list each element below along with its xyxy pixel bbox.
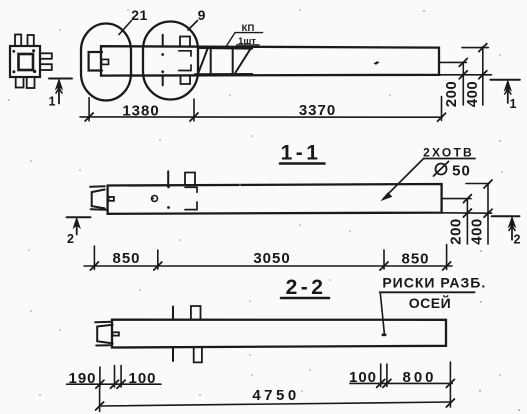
ellipse callout 21 [81, 24, 131, 101]
svg-text:100: 100 [349, 369, 377, 386]
dim text 3370 [299, 102, 336, 119]
dim text 850 left [112, 250, 140, 267]
svg-text:800: 800 [402, 369, 436, 386]
end view outer square [10, 46, 40, 77]
section 1-1 beam body [108, 184, 442, 214]
embed dots [161, 53, 164, 73]
underline 2-2 [281, 297, 329, 300]
svg-text:ОСЕЙ: ОСЕЙ [409, 294, 451, 311]
svg-text:21: 21 [131, 7, 148, 23]
end view bottom stubs [16, 77, 35, 88]
1-1 plate corner upper [185, 187, 197, 192]
svg-text:200: 200 [448, 218, 465, 245]
dim 200 main view [459, 58, 467, 105]
section 2-2 beam body [112, 320, 446, 348]
svg-text:190: 190 [68, 370, 96, 387]
riski underline [380, 291, 475, 293]
1-1 tick above beam [167, 171, 169, 183]
section mark 2 right [492, 216, 520, 240]
2-2 tick below beam [172, 347, 174, 361]
section mark 1 left [49, 79, 72, 104]
1-1 bottom extension right [442, 212, 492, 214]
label section 1-1 [281, 142, 322, 165]
svg-text:1-1: 1-1 [281, 142, 322, 165]
2-2 left tab [113, 332, 119, 335]
embed tick above beam [162, 35, 164, 47]
svg-text:2: 2 [67, 232, 74, 246]
1-1 dim 400 [466, 180, 492, 244]
leader 9 [188, 21, 198, 31]
dim text 190 [68, 370, 96, 387]
beam bottom extension right [439, 74, 492, 76]
1-1 dim ticks [90, 262, 450, 270]
embed top stub [180, 37, 190, 47]
1-1 left tab [109, 197, 114, 201]
svg-text:2: 2 [514, 233, 521, 247]
end view top stubs [15, 35, 34, 47]
extension line mid right [439, 61, 467, 63]
1-1 dots [167, 185, 170, 209]
underline 2xOTV [424, 158, 475, 160]
4750 dim ticks [96, 399, 455, 410]
end view right stubs [40, 53, 52, 70]
1-1 dim line [84, 265, 452, 267]
2-2 small dim ext lines right [381, 362, 451, 407]
label section 2-2 [286, 276, 327, 299]
text osey [409, 294, 451, 311]
riska mark on main beam [374, 61, 380, 65]
svg-text:2-2: 2-2 [286, 276, 327, 299]
label KP [238, 23, 256, 47]
label 21 [131, 7, 148, 23]
1-1 top stub [185, 173, 195, 184]
4750 dim line [100, 388, 451, 412]
label 2 right [514, 233, 521, 247]
leader 21 [119, 21, 132, 35]
embed tick below beam [162, 76, 164, 86]
text 50 [452, 163, 471, 180]
svg-text:9: 9 [198, 7, 206, 23]
underline 1-1 [280, 162, 325, 165]
svg-text:50: 50 [452, 163, 471, 180]
text 2xOTV [423, 146, 474, 160]
svg-text:850: 850 [112, 250, 140, 267]
dim text 100 left [128, 370, 156, 387]
svg-text:200: 200 [443, 81, 460, 108]
2-2 small dim ext lines left [100, 366, 121, 387]
1-1 circle marker [152, 196, 158, 202]
svg-text:400: 400 [469, 218, 486, 245]
dim text 100 right [349, 369, 377, 386]
2-2 left bracket [95, 322, 112, 346]
label 1 right [510, 97, 517, 111]
embed plate corner lower [179, 65, 191, 71]
svg-text:1380: 1380 [122, 103, 159, 120]
2-2 top stub [191, 306, 201, 320]
svg-text:100: 100 [128, 370, 156, 387]
2-2 small dim line right [350, 382, 452, 384]
dim 400 main view [462, 44, 488, 105]
svg-text:1: 1 [510, 97, 517, 111]
2-2 small dim line left [67, 383, 161, 385]
leader 2 holes [382, 159, 424, 201]
main dim ticks [85, 113, 445, 121]
main view dim extension lines [89, 97, 441, 121]
label 1 left [49, 95, 56, 109]
label 2 left [67, 232, 74, 246]
end view inner square [19, 54, 34, 70]
embed plate corner upper [179, 51, 191, 56]
end view corner dots [12, 49, 36, 73]
dim text 3050 [253, 250, 290, 267]
main view dim line [80, 116, 442, 118]
2-2 small dim ticks left [96, 380, 125, 388]
dim text 800 [402, 369, 436, 386]
1-1 mid extension right [442, 198, 471, 200]
1-1 dim extension lines [94, 245, 446, 270]
1-1 dim 200 [463, 195, 471, 244]
KP underlines and leader [226, 33, 263, 48]
svg-text:2ХОТВ: 2ХОТВ [423, 146, 474, 160]
2-2 tick above beam [172, 307, 174, 320]
svg-text:РИСКИ РАЗБ.: РИСКИ РАЗБ. [382, 275, 486, 291]
svg-text:3370: 3370 [299, 102, 336, 119]
2-2 small dim ticks right [377, 379, 455, 387]
main beam body [101, 46, 439, 75]
label 9 [198, 7, 206, 23]
main beam left bracket [89, 52, 102, 71]
dim text 850 right [401, 251, 429, 268]
svg-text:3050: 3050 [253, 250, 290, 267]
2-2 bottom stub [194, 347, 202, 362]
section mark 2 left [67, 217, 91, 234]
dim text 4750 [252, 387, 299, 404]
ellipse callout 9 [143, 22, 198, 100]
svg-text:850: 850 [401, 251, 429, 268]
section mark 1 right [490, 80, 519, 103]
corbel KP parallelogram [195, 48, 252, 75]
1-1 plate corner lower [185, 202, 197, 210]
riska mark 2-2 [381, 333, 386, 336]
1-1 left bracket [90, 186, 106, 209]
svg-text:4750: 4750 [252, 387, 299, 404]
dim text 1380 [122, 103, 159, 120]
svg-text:400: 400 [464, 81, 481, 108]
main beam left tab [102, 59, 109, 64]
riski leader [380, 293, 384, 333]
svg-text:1: 1 [49, 95, 56, 109]
diameter symbol [434, 162, 449, 177]
text riski razb [382, 275, 486, 291]
embed bottom stub [181, 76, 191, 85]
